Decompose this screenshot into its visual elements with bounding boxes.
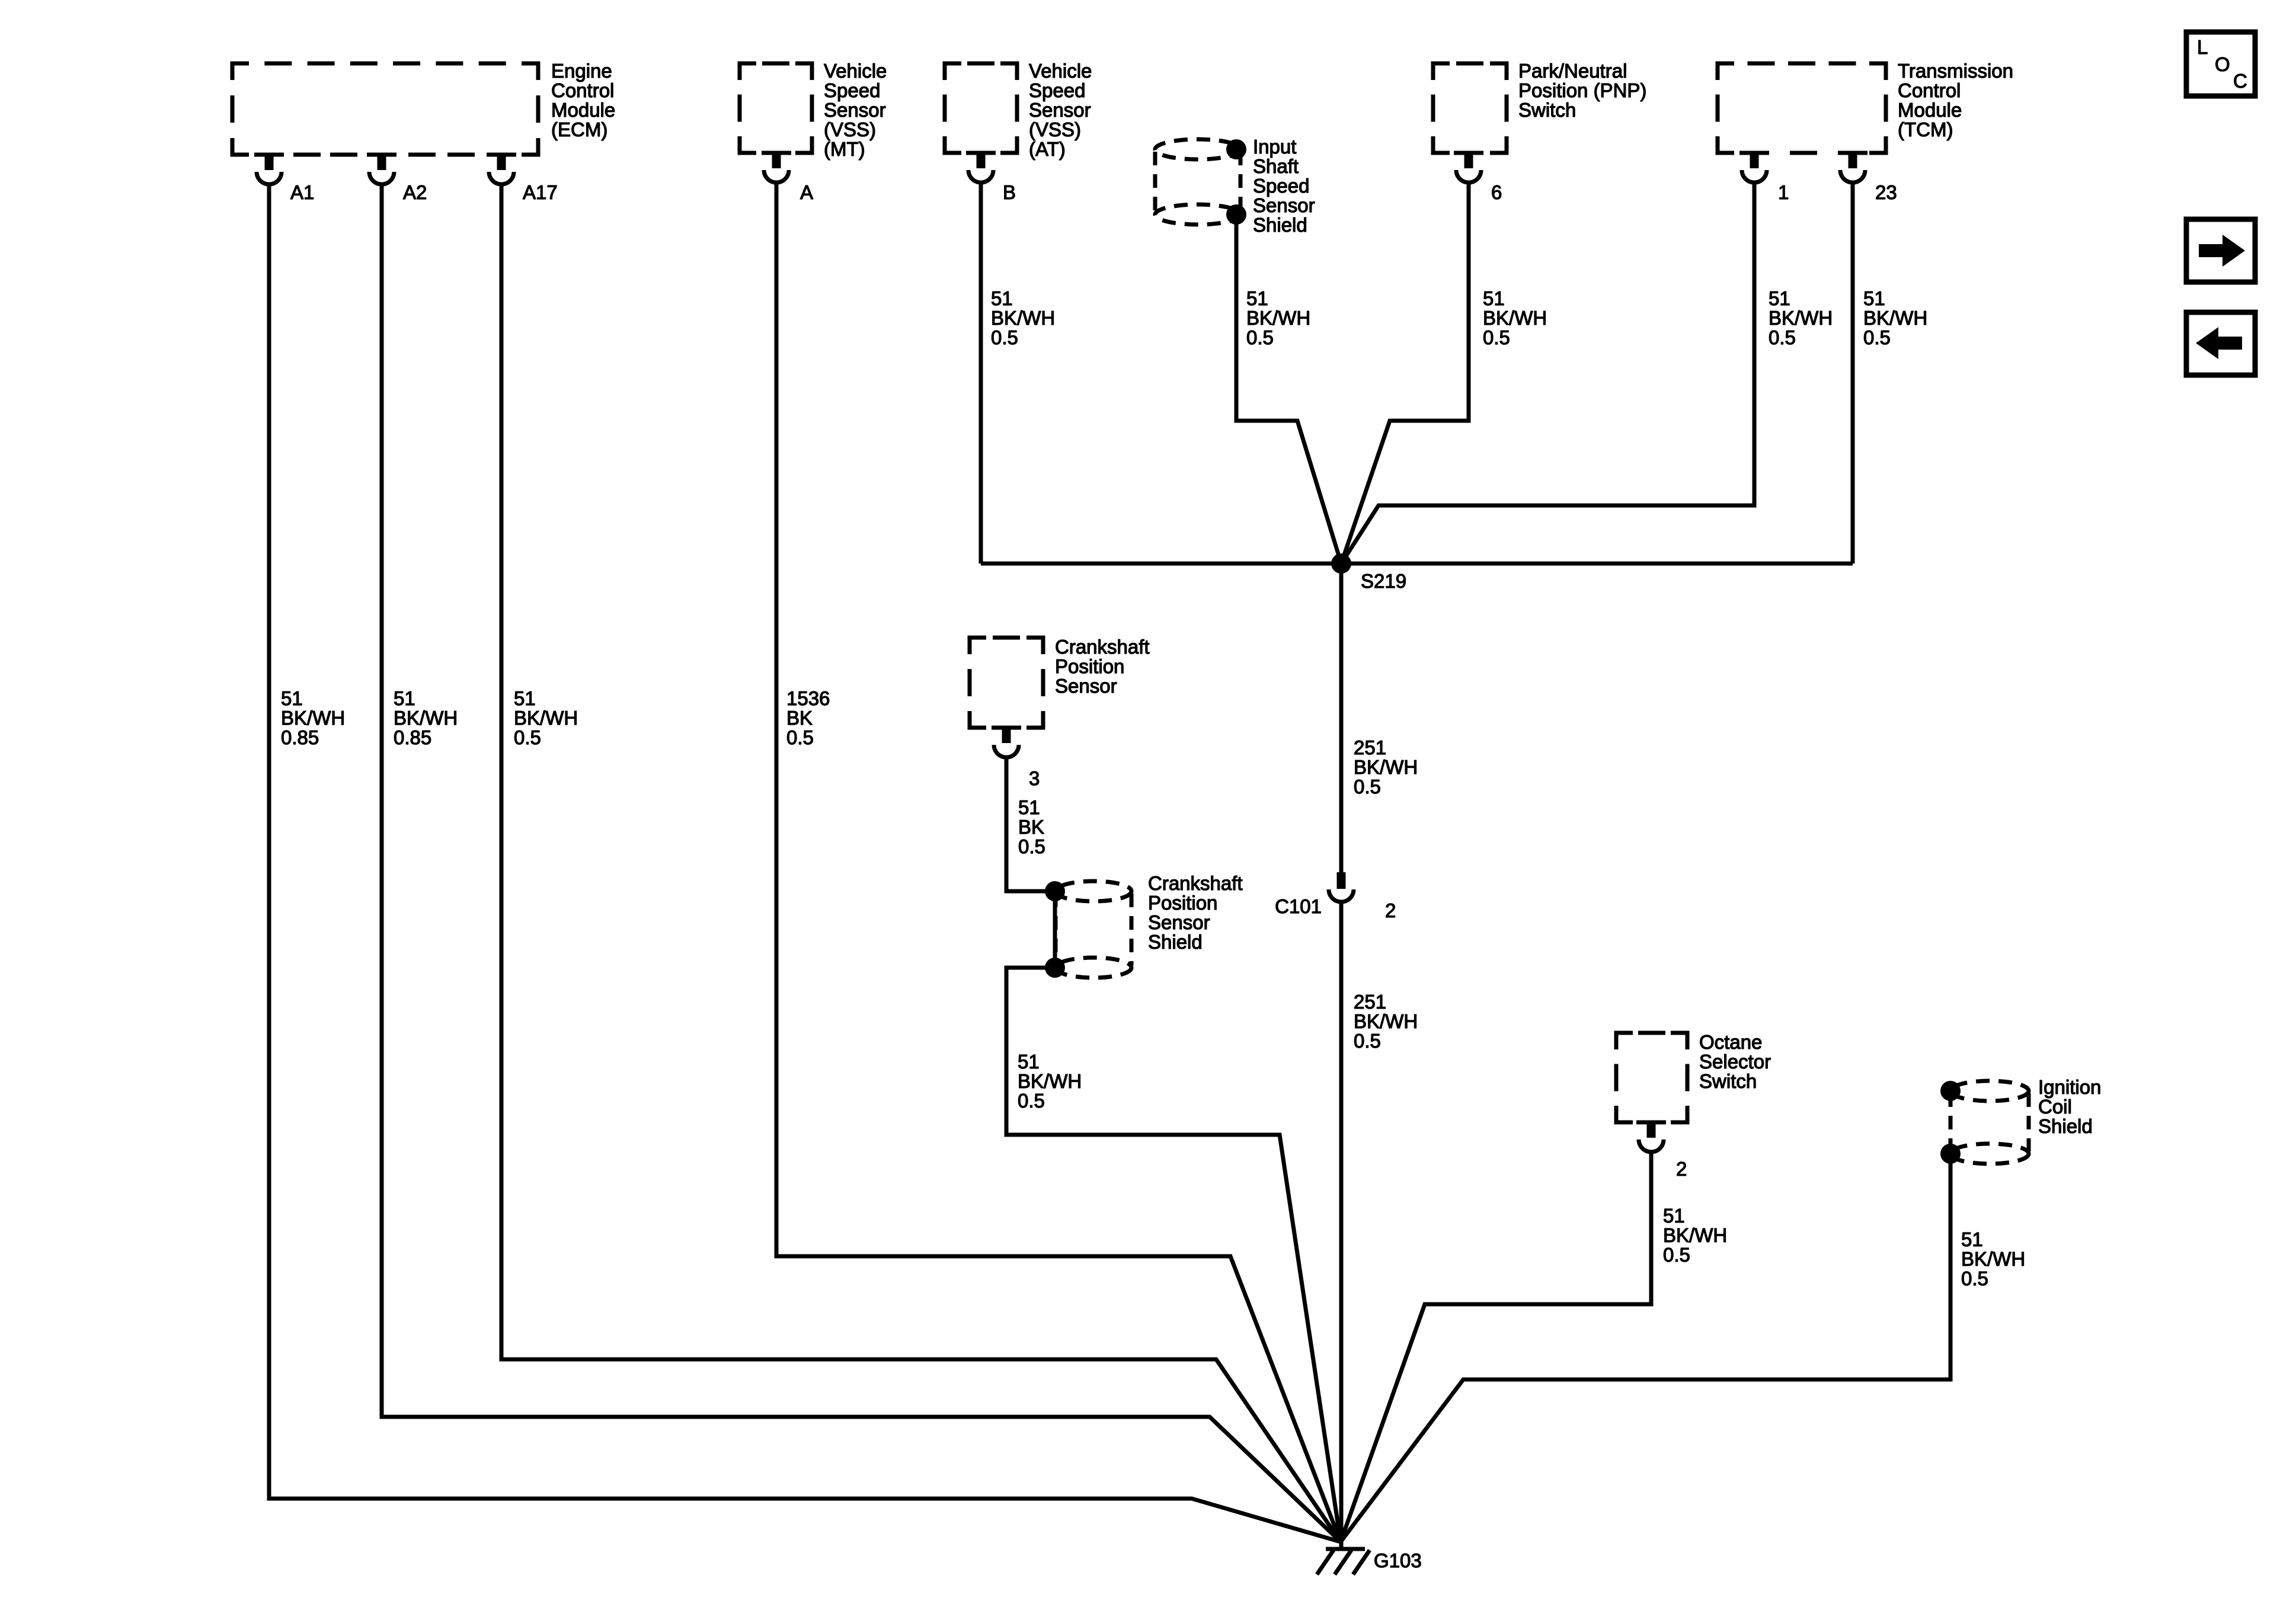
- svg-text:Shield: Shield: [1148, 931, 1203, 953]
- pin 1 connector: [1750, 152, 1759, 168]
- svg-text:Park/Neutral: Park/Neutral: [1518, 60, 1627, 82]
- pin A1 connector: [265, 153, 274, 170]
- svg-text:6: 6: [1491, 181, 1502, 203]
- svg-text:0.5: 0.5: [1961, 1267, 1988, 1289]
- svg-text:2: 2: [1676, 1158, 1687, 1180]
- svg-text:Switch: Switch: [1699, 1070, 1757, 1092]
- svg-text:(VSS): (VSS): [824, 119, 876, 140]
- wire 51 BK/WH 0.5 from input shaft shield to S219: [1236, 215, 1341, 564]
- svg-text:A: A: [800, 181, 813, 203]
- svg-text:Sensor: Sensor: [1253, 194, 1315, 216]
- svg-text:1536: 1536: [786, 687, 830, 709]
- svg-text:Position (PNP): Position (PNP): [1518, 79, 1646, 101]
- svg-text:BK/WH: BK/WH: [394, 707, 458, 729]
- svg-text:BK/WH: BK/WH: [1246, 307, 1310, 329]
- wire 51 BK/WH 0.5 from PNP switch pin 6 to S219: [1341, 181, 1469, 564]
- svg-text:A17: A17: [523, 181, 558, 203]
- switch S2: Octane Selector Switch dashed box: [1616, 1033, 1633, 1049]
- svg-text:Shaft: Shaft: [1253, 155, 1299, 177]
- pin A2 connector: [378, 153, 386, 170]
- svg-text:2: 2: [1385, 900, 1396, 921]
- svg-text:Ignition: Ignition: [2038, 1076, 2101, 1098]
- svg-text:0.85: 0.85: [394, 726, 431, 748]
- svg-text:0.5: 0.5: [1354, 776, 1381, 798]
- pin A17 connector: [497, 153, 506, 170]
- svg-text:(VSS): (VSS): [1029, 119, 1081, 140]
- svg-text:S219: S219: [1361, 570, 1406, 592]
- wire 1536 BK 0.5 from VSS (MT) pin A to G103: [776, 181, 1341, 1542]
- svg-text:L: L: [2197, 36, 2208, 58]
- svg-text:BK: BK: [1018, 816, 1044, 838]
- svg-text:Crankshaft: Crankshaft: [1055, 636, 1150, 658]
- wire 251 BK/WH 0.5 from C101 down to G103: [1339, 900, 1344, 1548]
- svg-text:(ECM): (ECM): [551, 119, 607, 140]
- svg-text:23: 23: [1875, 181, 1897, 203]
- svg-text:C101: C101: [1275, 895, 1322, 917]
- svg-text:0.85: 0.85: [281, 726, 319, 748]
- svg-text:Position: Position: [1055, 655, 1124, 677]
- svg-text:BK/WH: BK/WH: [1483, 307, 1547, 329]
- svg-text:(TCM): (TCM): [1898, 119, 1953, 140]
- wire 51 BK/WH 0.5 from ECM pin A17 to G103: [501, 183, 1341, 1542]
- svg-text:B: B: [1003, 181, 1016, 203]
- shield: Ignition Coil Shield dashed cylinder: [1950, 1081, 2029, 1101]
- node: input shaft shield top terminal dot: [1226, 139, 1246, 159]
- svg-text:51: 51: [394, 687, 415, 709]
- svg-text:A1: A1: [290, 181, 314, 203]
- svg-text:51: 51: [1246, 287, 1268, 309]
- svg-text:51: 51: [1018, 1051, 1040, 1073]
- junction S219 splice dot: [1331, 553, 1351, 574]
- svg-text:Sensor: Sensor: [824, 99, 886, 121]
- wire 51 BK 0.5 from crankshaft sensor pin 3 to shield top dot: [1006, 756, 1055, 891]
- shield: Crankshaft Position Sensor Shield dashed cylinder: [1056, 881, 1131, 901]
- pin A connector: [772, 152, 781, 168]
- svg-text:0.5: 0.5: [1018, 836, 1045, 857]
- icon: left arrow box: [2186, 312, 2255, 375]
- wire 51 BK/WH 0.85 from ECM pin A2 to G103: [382, 183, 1341, 1542]
- svg-text:Shield: Shield: [1253, 214, 1307, 236]
- svg-text:Control: Control: [1898, 79, 1961, 101]
- shield: Input Shaft Speed Sensor Shield dashed cylinder: [1155, 139, 1240, 159]
- svg-text:251: 251: [1354, 991, 1386, 1013]
- wire 51 BK/WH 0.5 from crankshaft shield bottom dot to G103: [1006, 968, 1341, 1542]
- svg-text:Input: Input: [1253, 136, 1296, 158]
- svg-text:Crankshaft: Crankshaft: [1148, 872, 1243, 894]
- node: ignition coil shield bottom terminal dot: [1940, 1144, 1961, 1164]
- svg-text:0.5: 0.5: [1663, 1244, 1690, 1266]
- svg-text:51: 51: [1769, 287, 1790, 309]
- pin B connector: [977, 152, 986, 168]
- wire 51 BK/WH 0.5 from TCM pin 23 down to splice bus: [1851, 181, 1855, 564]
- wire 51 BK/WH 0.5 from ignition coil shield to G103: [1341, 1154, 1950, 1542]
- svg-text:Module: Module: [1898, 99, 1962, 121]
- pin 23 connector: [1849, 152, 1857, 168]
- ground G103 symbol: [1326, 1547, 1365, 1551]
- svg-text:BK/WH: BK/WH: [991, 307, 1055, 329]
- svg-text:51: 51: [991, 287, 1013, 309]
- wire 51 BK/WH 0.5 from octane selector switch pin 2 to G103: [1341, 1150, 1651, 1542]
- svg-text:51: 51: [514, 687, 536, 709]
- svg-text:C: C: [2233, 70, 2247, 92]
- svg-text:0.5: 0.5: [1483, 327, 1510, 348]
- icon: L-O-C legend box: [2186, 32, 2255, 96]
- switch S1: Park/Neutral Position (PNP) Switch dashed box: [1433, 63, 1450, 80]
- svg-text:51: 51: [1961, 1228, 1983, 1250]
- module U1: Engine Control Module (ECM) dashed box: [232, 63, 249, 80]
- sensor B1: Vehicle Speed Sensor (VSS) (MT) dashed box: [740, 63, 756, 80]
- wire 51 BK/WH 0.5 from TCM pin 1 to S219: [1341, 181, 1754, 564]
- svg-text:1: 1: [1778, 181, 1789, 203]
- module U2: Transmission Control Module (TCM) dashed box: [1718, 63, 1734, 80]
- svg-text:Vehicle: Vehicle: [824, 60, 887, 82]
- svg-text:51: 51: [1483, 287, 1505, 309]
- svg-text:Coil: Coil: [2038, 1096, 2072, 1118]
- svg-text:Control: Control: [551, 79, 614, 101]
- wire: crankshaft shield drain between dots: [1053, 891, 1057, 968]
- svg-text:0.5: 0.5: [1354, 1030, 1381, 1052]
- svg-text:51: 51: [281, 687, 303, 709]
- connector C101 inline cup: [1337, 872, 1346, 889]
- svg-text:A2: A2: [403, 181, 427, 203]
- icon: right arrow box: [2186, 219, 2255, 282]
- svg-text:51: 51: [1018, 796, 1040, 818]
- wire 51 BK/WH 0.5 from VSS (AT) pin B down to splice bus: [979, 181, 983, 564]
- svg-text:BK/WH: BK/WH: [1769, 307, 1833, 329]
- svg-text:0.5: 0.5: [514, 726, 541, 748]
- svg-text:3: 3: [1029, 767, 1040, 789]
- svg-text:Speed: Speed: [1253, 175, 1309, 197]
- svg-text:Selector: Selector: [1699, 1051, 1771, 1073]
- svg-text:BK/WH: BK/WH: [281, 707, 345, 729]
- svg-text:BK/WH: BK/WH: [1663, 1224, 1727, 1246]
- svg-text:Octane: Octane: [1699, 1031, 1762, 1053]
- svg-text:(AT): (AT): [1029, 138, 1066, 160]
- sensor B3: Crankshaft Position Sensor dashed box: [970, 638, 986, 654]
- pin 2 connector (octane selector switch): [1647, 1121, 1656, 1138]
- svg-text:BK/WH: BK/WH: [1961, 1248, 2025, 1270]
- node: crankshaft shield top terminal dot: [1045, 881, 1065, 901]
- wire 251 BK/WH 0.5 from S219 down to C101: [1339, 564, 1344, 872]
- svg-text:BK/WH: BK/WH: [1018, 1070, 1082, 1092]
- svg-text:0.5: 0.5: [1769, 327, 1796, 348]
- pin 3 connector (crankshaft position sensor): [1002, 726, 1011, 743]
- svg-text:Switch: Switch: [1518, 99, 1576, 121]
- svg-text:BK/WH: BK/WH: [1354, 756, 1418, 778]
- node: input shaft shield bottom terminal dot: [1226, 204, 1246, 225]
- svg-text:51: 51: [1663, 1205, 1685, 1227]
- svg-text:0.5: 0.5: [786, 726, 814, 748]
- svg-text:BK: BK: [786, 707, 813, 729]
- node: crankshaft shield bottom terminal dot: [1045, 958, 1065, 978]
- svg-text:0.5: 0.5: [1018, 1090, 1045, 1112]
- svg-text:0.5: 0.5: [991, 327, 1018, 348]
- svg-text:BK/WH: BK/WH: [514, 707, 578, 729]
- svg-text:Sensor: Sensor: [1148, 911, 1210, 933]
- svg-text:251: 251: [1354, 737, 1386, 758]
- svg-text:Engine: Engine: [551, 60, 612, 82]
- svg-text:BK/WH: BK/WH: [1354, 1010, 1418, 1032]
- svg-text:Module: Module: [551, 99, 615, 121]
- svg-text:Shield: Shield: [2038, 1115, 2093, 1137]
- node: ignition coil shield top terminal dot: [1940, 1081, 1961, 1101]
- svg-text:Vehicle: Vehicle: [1029, 60, 1092, 82]
- svg-text:0.5: 0.5: [1246, 327, 1274, 348]
- svg-text:Transmission: Transmission: [1898, 60, 2013, 82]
- svg-text:51: 51: [1863, 287, 1885, 309]
- svg-text:Sensor: Sensor: [1055, 675, 1117, 697]
- wire 51 BK/WH 0.85 from ECM pin A1 to G103: [269, 183, 1341, 1542]
- svg-text:Speed: Speed: [824, 79, 880, 101]
- sensor B2: Vehicle Speed Sensor (VSS) (AT) dashed box: [945, 63, 961, 80]
- pin 6 connector: [1464, 152, 1473, 168]
- svg-text:(MT): (MT): [824, 138, 865, 160]
- svg-text:Sensor: Sensor: [1029, 99, 1091, 121]
- svg-text:0.5: 0.5: [1863, 327, 1891, 348]
- wire: splice bus through S219 from VSS (AT) wire to TCM pin 23 wire: [981, 562, 1853, 566]
- svg-text:BK/WH: BK/WH: [1863, 307, 1927, 329]
- svg-text:G103: G103: [1374, 1550, 1422, 1571]
- svg-text:O: O: [2215, 53, 2230, 75]
- svg-text:Speed: Speed: [1029, 79, 1085, 101]
- svg-text:Position: Position: [1148, 892, 1217, 914]
